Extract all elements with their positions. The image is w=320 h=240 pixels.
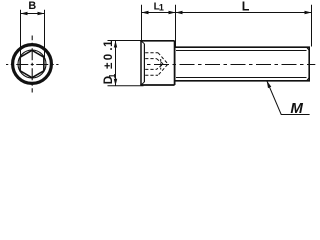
side view: head bottom edge (140, 84, 174, 86)
dim D1: bottom extension line (108, 85, 144, 87)
dim D1: top extension line (108, 40, 144, 42)
dim B: dimension line (21, 13, 45, 15)
dim L1: right extension line (175, 5, 177, 47)
thread minor bottom line (176, 77, 307, 79)
svg-text:B: B (28, 0, 36, 12)
socket hidden inner bottom line (145, 68, 156, 70)
side view: head chamfer line (143, 44, 145, 82)
side view: head right face (174, 41, 176, 85)
svg-text:1: 1 (103, 40, 115, 47)
dim B: right arrow (38, 12, 45, 15)
leader M: line (267, 81, 310, 115)
dim L1: left arrow (142, 11, 149, 14)
socket hidden inner top line (145, 58, 156, 60)
thread minor top line (176, 50, 307, 52)
svg-text:1: 1 (108, 73, 117, 78)
svg-text:0: 0 (103, 54, 115, 60)
side view: head chamfer top diagonal (141, 41, 144, 44)
end view: hex socket (20, 50, 44, 77)
side view: head left face (140, 41, 142, 85)
end view: head outer circle (13, 45, 52, 84)
socket inner cone (157, 59, 164, 70)
side view: head chamfer bottom diagonal (141, 82, 144, 85)
end view: socket chamfer circle (18, 50, 46, 78)
svg-text:1: 1 (159, 2, 164, 12)
thread end chamfer top (307, 47, 310, 50)
dim L: dimension line (176, 12, 312, 14)
dim L1: dimension line (142, 12, 176, 14)
svg-text:M: M (290, 100, 303, 117)
dim B: left arrow (21, 12, 28, 15)
socket outer cone (158, 53, 168, 76)
socket hidden outer top line (145, 52, 158, 54)
socket hidden outer bottom line (145, 74, 158, 76)
side view: head top edge (140, 40, 174, 42)
dim L1: left extension line (141, 5, 143, 40)
dim L: right extension line (311, 5, 313, 47)
dim D1: bottom arrow (114, 79, 117, 86)
thread end chamfer bottom (307, 78, 310, 81)
svg-text:L: L (242, 0, 250, 13)
socket depth line (160, 59, 162, 70)
dim D1: top arrow (114, 41, 117, 48)
dim D1: dimension line (115, 41, 117, 86)
dim L: left arrow (176, 11, 183, 14)
end view: vertical center line (31, 36, 33, 93)
shaft outline (major diameter) (175, 47, 310, 81)
dim B: left extension line (20, 10, 22, 58)
end view: horizontal center line (6, 64, 59, 66)
dim D1: label D1±0.1 (rotated) (103, 40, 117, 84)
shaft center line (147, 64, 315, 66)
svg-text:±: ± (103, 62, 115, 69)
dim L1: right arrow (169, 11, 176, 14)
leader M: arrowhead (267, 81, 272, 89)
dim B: right extension line (44, 10, 46, 58)
dim L: right arrow (305, 11, 312, 14)
